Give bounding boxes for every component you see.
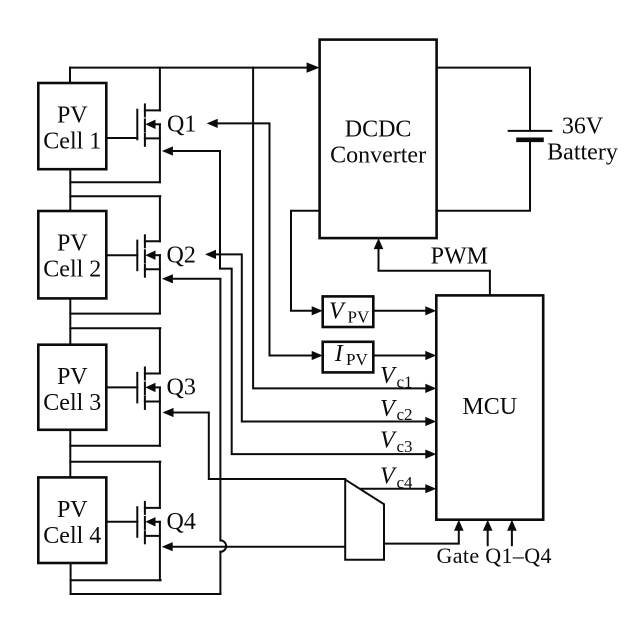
svg-text:V: V: [380, 396, 397, 422]
svg-text:Q1: Q1: [167, 111, 196, 137]
svg-text:Cell 1: Cell 1: [43, 128, 101, 154]
svg-text:Gate Q1–Q4: Gate Q1–Q4: [437, 543, 552, 568]
svg-text:c4: c4: [397, 473, 414, 492]
svg-text:PV: PV: [57, 364, 88, 390]
svg-text:PV: PV: [57, 230, 88, 256]
svg-text:c1: c1: [397, 372, 413, 391]
svg-text:Q2: Q2: [167, 242, 196, 268]
svg-text:Q4: Q4: [167, 509, 196, 535]
svg-text:PV: PV: [57, 102, 88, 128]
svg-text:V: V: [380, 428, 397, 454]
svg-text:Cell 3: Cell 3: [43, 390, 101, 416]
svg-text:PWM: PWM: [431, 244, 488, 270]
svg-text:MCU: MCU: [462, 394, 517, 420]
svg-text:V: V: [380, 363, 397, 389]
svg-text:Converter: Converter: [330, 142, 426, 168]
svg-text:I: I: [334, 341, 344, 367]
svg-text:Cell 2: Cell 2: [43, 256, 101, 282]
svg-text:36V: 36V: [562, 114, 604, 140]
svg-text:c3: c3: [397, 437, 413, 456]
svg-text:Q3: Q3: [167, 375, 196, 401]
svg-text:Battery: Battery: [547, 139, 618, 165]
svg-text:DCDC: DCDC: [345, 117, 412, 143]
svg-text:PV: PV: [348, 307, 370, 326]
svg-text:PV: PV: [57, 497, 88, 523]
svg-text:PV: PV: [346, 350, 368, 369]
svg-text:V: V: [380, 464, 397, 490]
svg-text:V: V: [329, 299, 346, 325]
svg-text:c2: c2: [397, 405, 413, 424]
svg-text:Cell 4: Cell 4: [43, 523, 101, 549]
